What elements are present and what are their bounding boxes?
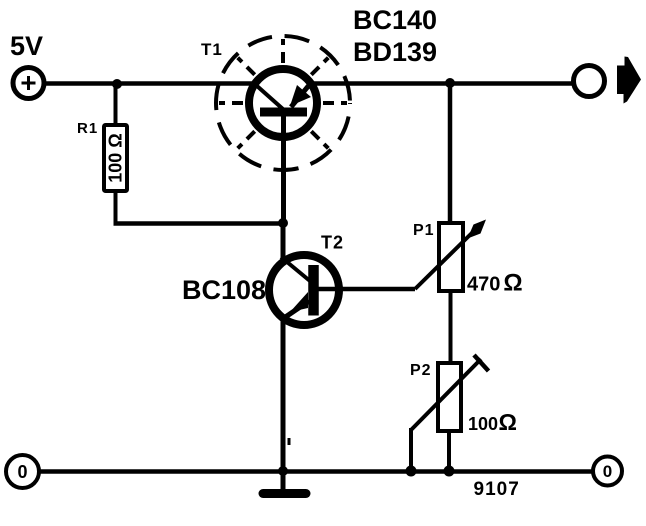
- svg-text:P2: P2: [410, 362, 432, 379]
- svg-text:470Ω: 470Ω: [467, 270, 523, 297]
- svg-text:0: 0: [17, 462, 27, 482]
- svg-text:100 Ω: 100 Ω: [106, 133, 126, 182]
- svg-text:BD139: BD139: [353, 37, 437, 67]
- svg-text:R1: R1: [77, 120, 98, 137]
- svg-text:0: 0: [603, 462, 612, 481]
- svg-text:BC108: BC108: [182, 275, 266, 305]
- svg-text:9107: 9107: [474, 479, 520, 500]
- svg-text:BC140: BC140: [353, 5, 437, 35]
- svg-text:T2: T2: [321, 233, 344, 253]
- svg-text:P1: P1: [413, 222, 435, 239]
- svg-text:T1: T1: [201, 40, 223, 59]
- svg-text:5V: 5V: [10, 31, 43, 61]
